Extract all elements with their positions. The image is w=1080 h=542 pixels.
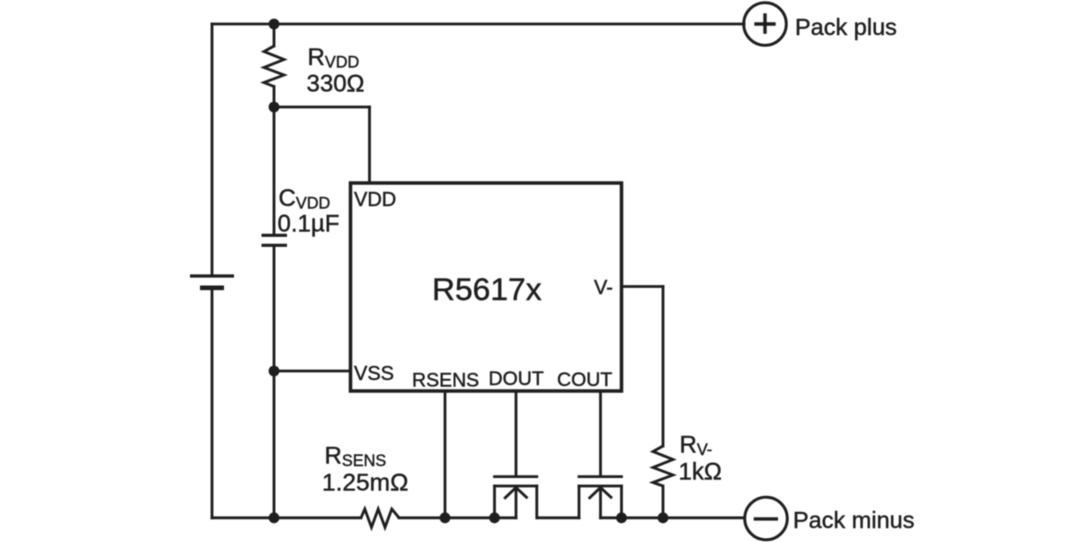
svg-text:VSS: VSS [354, 363, 394, 385]
svg-text:RSENS: RSENS [412, 370, 479, 392]
node junction dot VSS tee [269, 366, 280, 377]
svg-text:RSENS: RSENS [325, 442, 387, 470]
transistor Q1 DOUT MOSFET [495, 391, 537, 518]
svg-text:DOUT: DOUT [489, 368, 544, 390]
wire bottom rail segment D [601, 516, 745, 519]
op-amp U1 R5617x IC box [351, 183, 622, 391]
wire RVDD bottom lead [273, 87, 276, 108]
resistor RSENS [361, 509, 399, 527]
svg-text:R5617x: R5617x [432, 271, 542, 307]
transistor Q2 COUT MOSFET [579, 391, 622, 518]
wire V- vertical to RV- [662, 287, 665, 447]
svg-text:1.25mΩ: 1.25mΩ [322, 469, 408, 496]
svg-text:Pack plus: Pack plus [795, 14, 897, 40]
wire bottom rail segment B [399, 516, 516, 519]
svg-text:0.1µF: 0.1µF [278, 211, 340, 238]
wire V- horizontal [622, 285, 664, 288]
wire RV- bottom lead [662, 486, 665, 518]
resistor RVDD [264, 46, 284, 87]
wire CVDD branch upper [273, 107, 276, 235]
svg-text:CVDD: CVDD [279, 185, 331, 213]
svg-text:V-: V- [594, 277, 613, 299]
wire top rail from battery to Pack plus [212, 23, 744, 26]
wire RVDD top lead [273, 24, 276, 46]
terminal Pack plus circle [744, 3, 787, 46]
wire left vertical battery top lead [211, 24, 214, 276]
wire CVDD branch lower to bottom rail [273, 246, 276, 518]
resistor RV- [653, 446, 673, 486]
node junction dot bottom RSENS pin [440, 512, 451, 523]
node junction dot RV- bottom [658, 512, 669, 523]
svg-text:Pack minus: Pack minus [793, 507, 914, 533]
wire VDD branch vertical to IC [368, 107, 371, 183]
capacitor CVDD [262, 235, 288, 245]
svg-text:RV-: RV- [680, 432, 713, 460]
svg-text:COUT: COUT [557, 369, 612, 391]
node junction dot top RVDD [269, 19, 280, 30]
battery B1 [190, 276, 234, 288]
svg-text:330Ω: 330Ω [307, 71, 365, 98]
node junction dot Q1 source [489, 512, 500, 523]
svg-text:RVDD: RVDD [308, 44, 360, 72]
wire bottom rail segment A [212, 516, 361, 519]
wire left vertical battery bottom lead [211, 288, 214, 518]
svg-text:1kΩ: 1kΩ [679, 458, 722, 485]
node junction dot RVDD bottom [269, 102, 280, 113]
wire VDD branch horizontal [274, 106, 370, 109]
wire VSS tee [274, 370, 350, 373]
node junction dot bottom CVDD [269, 512, 280, 523]
svg-text:VDD: VDD [354, 189, 396, 211]
wire RSENS pin drop [444, 391, 447, 518]
node junction dot Q2 source [616, 512, 627, 523]
terminal Pack minus circle [745, 497, 788, 540]
wire bottom rail segment C [537, 516, 579, 519]
